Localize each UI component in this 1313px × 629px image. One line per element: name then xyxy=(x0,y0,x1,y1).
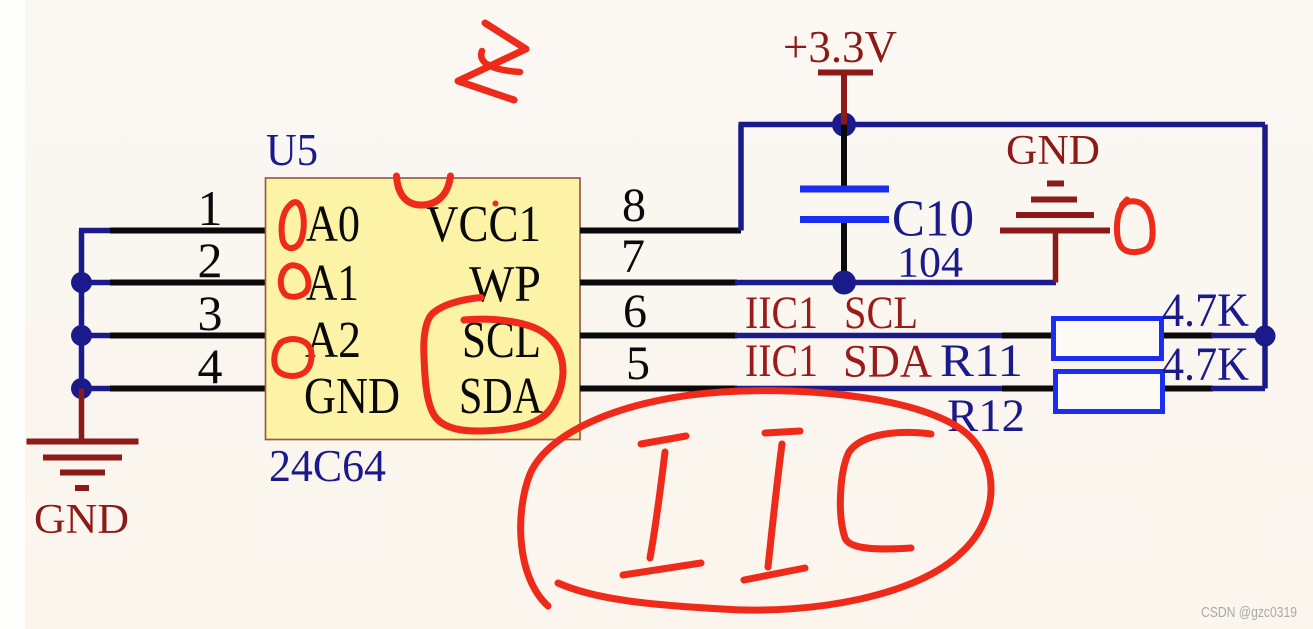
svg-text:7: 7 xyxy=(621,230,645,283)
svg-text:SDA: SDA xyxy=(459,368,543,425)
wire: pin 4 navy segment xyxy=(82,386,113,392)
wire: pin 3 black segment xyxy=(110,333,266,339)
annotation: handwritten letter C xyxy=(840,432,931,549)
resistor R11 body xyxy=(1054,319,1162,359)
wire: black segment into R12 xyxy=(1002,386,1057,392)
svg-text:SCL: SCL xyxy=(844,287,918,339)
annotation: red squiggle top xyxy=(458,23,526,100)
wire: left vertical bus (pins 1-4 common net) xyxy=(79,231,85,389)
wire: pin 4 black segment xyxy=(110,386,266,392)
junction: +3.3V stem on rail xyxy=(832,113,856,137)
svg-text:A0: A0 xyxy=(306,196,360,253)
svg-text:4.7K: 4.7K xyxy=(1162,338,1249,391)
power symbol +3.3V stem xyxy=(841,73,847,125)
junction on bus at pin 3 xyxy=(71,325,92,346)
svg-text:5: 5 xyxy=(626,337,650,390)
annotation: handwritten letter I (second) xyxy=(744,431,805,580)
annotation: red squiggle cross stroke xyxy=(481,51,520,72)
svg-text:2: 2 xyxy=(198,232,223,288)
wire: black segment into R11 xyxy=(1002,333,1056,339)
wire: pin 7 black segment xyxy=(580,280,737,286)
svg-text:3: 3 xyxy=(198,285,223,341)
annotation: red circle around A0 pin xyxy=(282,202,304,248)
wire: pin 1 to bus (navy segment) xyxy=(79,228,112,234)
ground: bottom-left GND symbol stem xyxy=(79,389,85,442)
wire: black segment R11 to node xyxy=(1160,333,1213,339)
svg-text:IIC1: IIC1 xyxy=(745,287,818,339)
svg-text:R12: R12 xyxy=(947,390,1025,442)
junction on bus at pin 2 xyxy=(71,272,92,293)
svg-text:GND: GND xyxy=(1006,128,1100,174)
wire: pin 2 navy segment xyxy=(82,280,113,286)
junction: pull-up common node on right rail xyxy=(1255,326,1276,347)
ground: top-right GND symbol stem xyxy=(1053,231,1059,283)
svg-text:SDA: SDA xyxy=(843,336,932,388)
wire: +3.3V horizontal rail xyxy=(739,122,1266,128)
annotation: red arc on chip top edge xyxy=(397,176,451,205)
svg-text:6: 6 xyxy=(623,285,647,338)
wire: navy elbow to right rail xyxy=(1211,386,1265,392)
annotation: small red dot on chip xyxy=(493,201,499,207)
junction on bus at pin 4 xyxy=(71,378,92,399)
wire: pin 3 navy segment xyxy=(82,333,113,339)
svg-text:A1: A1 xyxy=(306,255,359,312)
annotation: handwritten letter I (first) xyxy=(623,436,701,575)
svg-text:1: 1 xyxy=(198,180,223,236)
annotation: big red ellipse around IIC xyxy=(521,391,991,610)
wire: navy vertical from pin 8 up to +3.3V rail xyxy=(738,125,744,231)
svg-text:104: 104 xyxy=(897,240,963,287)
svg-text:IIC1: IIC1 xyxy=(745,335,818,387)
capacitor C10 plates xyxy=(800,189,889,220)
svg-text:U5: U5 xyxy=(266,125,318,175)
wire: navy segment to pull-up node xyxy=(1211,333,1265,339)
capacitor C10 bottom lead (black) xyxy=(841,223,847,283)
wire: pin 1 black segment xyxy=(110,228,266,234)
power symbol +3.3V bar xyxy=(818,70,873,76)
ground: top-right GND symbol bars xyxy=(1000,184,1110,231)
annotation: red circle around A1 pin xyxy=(281,265,309,297)
IC U5 body (24C64 EEPROM) xyxy=(266,178,581,440)
wire: pin 7 navy segment to ground symbol xyxy=(735,280,1056,286)
svg-text:WP: WP xyxy=(469,256,541,313)
svg-text:R11: R11 xyxy=(940,335,1023,387)
svg-text:8: 8 xyxy=(622,179,646,232)
svg-text:CSDN @gzc0319: CSDN @gzc0319 xyxy=(1201,605,1297,621)
annotation: red circle around SCL/SDA pins xyxy=(424,298,563,432)
junction: capacitor bottom on pin-7 net xyxy=(832,271,856,295)
annotation: red circle around A2 pin xyxy=(274,339,311,376)
annotation: red blob beside top-right GND xyxy=(1117,200,1153,253)
resistor R12 body xyxy=(1056,372,1163,412)
wire: pin 8 black segment xyxy=(580,228,741,234)
svg-text:GND: GND xyxy=(304,368,400,425)
ground: bottom-left GND symbol bars xyxy=(27,442,139,489)
svg-text:24C64: 24C64 xyxy=(269,440,386,491)
svg-text:GND: GND xyxy=(34,497,129,543)
wire: black segment R12 to right rail xyxy=(1160,386,1213,392)
svg-text:4: 4 xyxy=(198,338,223,394)
svg-text:VCC1: VCC1 xyxy=(426,196,541,253)
svg-text:+3.3V: +3.3V xyxy=(783,22,897,72)
wire: pin 2 black segment xyxy=(110,280,266,286)
wire: right vertical rail down to resistors xyxy=(1262,125,1268,389)
wire: pin 6 black segment at chip xyxy=(580,333,737,339)
wire: pin 5 navy segment xyxy=(735,386,1004,392)
wire: pin 6 navy segment xyxy=(735,333,1004,339)
svg-text:4.7K: 4.7K xyxy=(1162,284,1249,337)
capacitor C10 top lead (black) xyxy=(841,125,847,187)
wire: pin 5 black segment at chip xyxy=(580,386,737,392)
